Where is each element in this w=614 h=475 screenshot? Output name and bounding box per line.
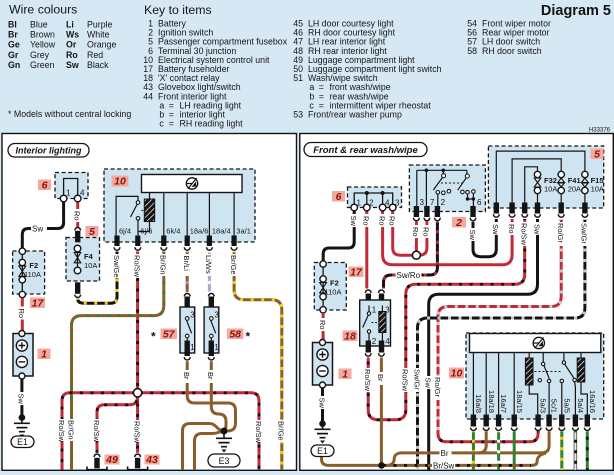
label 57 (pink) with asterisk [151,328,177,343]
svg-text:Sw/Gr: Sw/Gr [580,223,589,244]
svg-text:Br/Sw: Br/Sw [433,461,455,470]
internal wiring [473,353,514,415]
wire Br: switch 58 to earth E3 [211,361,226,431]
svg-text:49: 49 [105,454,118,466]
svg-text:1: 1 [342,368,348,380]
ignition switch 2 [409,165,485,212]
pins of fusebox 5 [493,203,587,218]
svg-text:2: 2 [455,217,462,229]
wire Ro: junction 6 to fusebox 5 [76,200,79,228]
svg-text:Ws: Ws [66,30,79,40]
svg-text:Br: Br [8,30,18,40]
svg-text:Sw: Sw [66,60,79,70]
fusebox 5 with fuse F4 10A [66,228,100,298]
svg-text:Key to items: Key to items [144,3,212,17]
svg-text:Br: Br [441,449,449,458]
wire Sw: ignition pin 6 to fusebox 5 [473,219,496,257]
svg-text:1: 1 [66,188,71,197]
svg-text:10: 10 [451,368,463,380]
junction node on Ro/Sw bus [136,397,139,453]
svg-text:6j/6: 6j/6 [140,227,152,236]
luggage compartment light 49 [87,454,107,470]
svg-text:H33376: H33376 [589,128,611,134]
header: key to items column 1 [143,3,287,129]
svg-text:Ro: Ro [507,224,516,234]
svg-text:Ro: Ro [66,50,78,60]
wire Ro/Sw bus right arm [142,393,259,470]
svg-text:Sw/Ge: Sw/Ge [112,255,121,278]
glovebox light 43 [128,454,148,470]
svg-text:Ro: Ro [411,227,420,237]
battery 1 [13,331,33,380]
svg-text:Ro/Sw: Ro/Sw [132,255,141,278]
svg-text:Br: Br [206,372,215,380]
label Ro/Sw [521,222,529,246]
panel title: Front & rear wash/wipe [304,143,427,157]
svg-text:2: 2 [372,337,377,346]
svg-text:Ro/Sw: Ro/Sw [92,420,101,443]
svg-text:Ro: Ro [377,216,386,226]
svg-text:* Models without central locki: * Models without central locking [8,109,131,119]
svg-text:Ro/Sw: Ro/Sw [132,421,141,444]
svg-text:6: 6 [42,179,48,191]
wire Br: relay 18 pin 4 to earth bus [380,358,383,466]
terminal 30 junction 6 [55,173,88,202]
svg-text:Sw: Sw [17,394,26,405]
svg-text:17: 17 [32,297,45,309]
svg-text:10A: 10A [591,185,604,194]
svg-text:Sw: Sw [424,378,433,389]
wire Ro/Sw: relay 18 pin 2 to fusebox 5 [368,219,525,420]
svg-text:6: 6 [477,198,482,207]
wire Sw/Gr: fuse F15 output down-left to bottom [418,219,585,470]
battery 1 (right) [313,340,333,389]
label 5 (pink) [86,226,99,238]
junction dot on earth bus [378,462,385,469]
wire Gn/Ge: pin 5a/5 to bottom [560,431,563,470]
svg-text:10: 10 [114,176,126,188]
svg-text:Ro: Ro [17,309,26,319]
svg-text:2: 2 [441,198,446,207]
label Ro/Gr [557,222,565,246]
wire Br/Sw: earth bus from right [382,453,547,465]
right panel frame [300,134,614,471]
svg-text:5: 5 [89,226,95,238]
svg-text:Brown: Brown [30,30,55,40]
svg-text:Br/Ge: Br/Ge [229,255,238,275]
svg-text:Ro/Gr: Ro/Gr [433,377,442,398]
svg-text:58: 58 [229,328,241,340]
svg-text:Interior lighting: Interior lighting [16,146,82,156]
wire Ro/Sw: junction to luggage light 49 [97,396,138,453]
svg-text:Sw: Sw [317,398,326,409]
svg-text:Red: Red [87,50,103,60]
wire Gn/Ws: pin 16a/7 to bottom [497,431,500,470]
internal pin feeds [164,193,234,236]
svg-text:Sw: Sw [349,216,358,227]
label 49 (pink) [105,454,120,466]
svg-text:Br/Gn: Br/Gn [66,420,75,440]
svg-text:10A: 10A [544,185,557,194]
svg-text:1: 1 [190,343,195,352]
left panel frame [2,134,297,471]
svg-text:Li/Ws: Li/Ws [204,255,213,274]
svg-text:Ro/Sw: Ro/Sw [363,369,372,392]
svg-text:Br/Ge: Br/Ge [277,421,286,441]
svg-text:20A: 20A [568,185,581,194]
wire Br/Ge: pin 3a/1 down, right and to bottom [234,252,282,471]
wire Br: pin 5c/1 to earth bus and junction [382,431,550,465]
wire Ro: junction 6 pin 3 to ignition switch pins 3 and 7 [393,209,427,255]
svg-text:Yellow: Yellow [30,40,56,50]
svg-text:Ro/Sw: Ro/Sw [520,223,529,246]
svg-text:43: 43 [145,454,158,466]
label Sw [492,222,500,235]
svg-text:5a/5: 5a/5 [562,398,571,413]
label Sw [534,222,542,235]
svg-text:RH door switch: RH door switch [482,46,542,56]
svg-text:Front/rear washer pump: Front/rear washer pump [308,110,402,120]
label Sw/Gr [581,222,589,246]
svg-text:Ge: Ge [8,40,20,50]
svg-text:Br: Br [182,372,191,380]
svg-text:1: 1 [41,348,47,360]
wire Br: switch 57 to earth E3 [187,361,235,431]
battery fuseholder 17 (right) with fuse F2 110A [314,261,346,313]
wire Ws: pin 5a/4 to bottom [574,431,577,470]
pins of wiper control unit 10 [471,415,591,431]
label 6 (pink) [332,191,345,203]
svg-text:51: 51 [293,73,303,83]
pins of control unit 10 [114,236,237,251]
svg-text:RH reading light: RH reading light [180,119,244,129]
wire Ro/Gr: fuse F41 output down-left then to wiper unit pin 5a/3 [438,219,561,434]
wire Sw: fuse F32 output down-left to bottom [429,219,538,470]
svg-text:F4: F4 [84,252,94,261]
svg-text:Sw/Gr: Sw/Gr [412,369,421,390]
wire Li/Ws: pin 18a/4 down to door switch 58 [208,252,211,293]
wire Sw/Ge: fuse F4 to pin 6j/4 [78,252,117,304]
svg-text:6k/4: 6k/4 [166,227,180,236]
ground E1 (right) [311,420,334,456]
label Ro [508,222,516,235]
door switch 57 [180,294,195,361]
svg-text:Wire colours: Wire colours [9,3,77,17]
svg-text:Ro: Ro [73,211,82,221]
svg-text:5: 5 [594,148,600,160]
wire Br/Li: pin 18a/6 down to door switch 57 [186,252,189,293]
panel title: Interior lighting [8,144,89,158]
wire Ro: junction 6 pin 2 down to relay 18 [365,209,368,289]
svg-text:1: 1 [372,306,377,315]
wire Br: earth bus branch to bottom right [195,431,225,470]
svg-text:53: 53 [293,110,303,120]
svg-text:17: 17 [350,266,363,278]
svg-text:5a/4: 5a/4 [576,398,585,413]
svg-text:F2: F2 [330,279,339,288]
battery fuseholder 17 with fuse F2 110A [13,248,45,298]
svg-text:16a/8: 16a/8 [474,394,483,413]
svg-text:18a/4: 18a/4 [212,227,231,236]
svg-text:=: = [169,119,174,129]
svg-text:Sw: Sw [32,224,43,233]
ground E3 [208,428,240,468]
svg-text:E3: E3 [219,456,230,466]
label 10 (pink) [449,368,464,380]
internal relay wiring [116,196,138,235]
header: key to items column 2 [293,19,441,120]
wire Ro: fuse F2 to battery (right) [322,313,325,340]
svg-text:Br: Br [376,374,385,382]
wire Sw: battery to ground [20,379,23,415]
svg-text:Purple: Purple [87,20,113,30]
svg-text:18: 18 [344,330,356,342]
passenger compartment fusebox 5 [488,146,604,208]
wire Sw: battery to ground (right) [321,388,324,421]
fuse F15 [582,171,604,202]
fuse F32 [534,171,557,202]
label 18 (pink) [343,330,358,342]
svg-text:16a/16: 16a/16 [588,390,597,413]
wire Ro: junction 6 pin 4 to fusebox 5 [383,209,512,265]
wire Br: earth bus branch to bottom left [183,424,225,471]
wire Sw: junction 6 pin 1 to battery fuseholder [323,209,354,261]
svg-text:Ro: Ro [318,320,327,330]
terminal 30 junction 6 (right) [348,187,402,211]
wire Ro: fuse F2 to battery [21,298,24,331]
svg-text:Blue: Blue [30,20,48,30]
junction circle [412,251,420,259]
svg-text:3: 3 [190,311,195,320]
svg-text:F2: F2 [29,261,38,270]
electrical system control unit 10 [104,169,255,242]
svg-text:Green: Green [30,60,55,70]
svg-text:18a/18: 18a/18 [487,390,496,413]
svg-text:Ro/Sw: Ro/Sw [254,421,263,444]
svg-text:Ro: Ro [362,216,371,226]
label 17 (pink) [349,266,364,278]
label 17 (pink) [30,297,45,309]
svg-text:6: 6 [336,191,342,203]
wiper control unit 10 (right) [466,333,604,419]
door switch 58 [204,294,219,361]
label 10 (pink) [112,176,129,188]
svg-text:3: 3 [420,198,425,207]
wire Gn/Ge: pin 16a/8 to bottom [472,431,475,470]
label 2 (pink) [452,217,466,229]
junction circle [133,389,141,397]
svg-text:Orange: Orange [87,40,116,50]
wire Sw/Ro: ignition pin 2 to relay 18 pin 3 [384,222,438,289]
svg-text:White: White [87,30,110,40]
svg-text:*: * [151,330,156,344]
label 43 (pink) [145,454,160,466]
svg-text:Sw/Ro: Sw/Ro [397,271,421,280]
label 6 (pink) [38,179,51,191]
svg-text:6j/4: 6j/4 [119,227,131,236]
svg-text:5c/1: 5c/1 [550,399,559,413]
svg-text:Li: Li [66,20,74,30]
svg-text:16a/7: 16a/7 [499,394,508,413]
wire Gn: pin 18a/15 to bottom [513,431,516,470]
'X' contact relay 18 [360,290,391,356]
svg-text:Gr: Gr [8,50,19,60]
svg-text:18a/15: 18a/15 [515,390,524,413]
svg-text:Ro/Sw: Ro/Sw [57,420,66,443]
svg-text:*: * [246,330,251,344]
svg-text:Ro/Gr: Ro/Gr [556,223,565,244]
label 1 (pink) [38,348,51,360]
svg-text:Bl: Bl [8,20,17,30]
wire Br/Gn: pin 6k/4 down, left and to bottom [72,252,164,471]
svg-text:Black: Black [87,60,109,70]
svg-text:Ro/Sw: Ro/Sw [401,369,410,392]
svg-text:3a/1: 3a/1 [236,227,251,236]
svg-text:1: 1 [214,343,219,352]
svg-text:Sw: Sw [532,224,541,235]
svg-text:c: c [159,119,164,129]
svg-text:110A: 110A [325,288,342,297]
pins of ignition switch 2 [414,206,476,221]
wire Br: pin 18a/18 to earth bus [479,431,487,453]
svg-text:Ro: Ro [422,227,431,237]
svg-text:Sw: Sw [468,230,477,241]
svg-text:Or: Or [66,40,77,50]
ground E1 [11,414,34,447]
svg-text:3: 3 [214,311,219,320]
wire Ro/Sw bus left arm [62,393,133,470]
interior light icon [186,178,197,189]
svg-text:Front & rear wash/wipe: Front & rear wash/wipe [313,145,418,156]
wire Ro: ignition pin 3 to junction [415,222,418,252]
svg-text:5a/3: 5a/3 [538,398,547,413]
wire Gn/Sw: pin 16a/16 to bottom [586,431,589,470]
svg-text:110A: 110A [24,270,41,279]
svg-text:10A: 10A [84,261,97,270]
label 5 (pink) [591,148,604,160]
svg-text:18a/6: 18a/6 [190,227,209,236]
svg-text:57: 57 [163,328,176,340]
wire Ro/Sw: pin 6j/6 down to junction [136,252,139,389]
svg-text:7: 7 [430,198,435,207]
header: key to items column 3 [467,19,551,56]
svg-text:Br/Gn: Br/Gn [159,255,168,275]
svg-text:Br/Li: Br/Li [182,256,191,272]
header: wire colours legend [8,3,131,120]
svg-text:58: 58 [467,46,477,56]
wire Br: earth bus to earth point E1 [322,457,382,465]
wire Ro/Sw: lower run to wiper unit pin 5a/3 [438,431,538,442]
svg-text:E1: E1 [317,446,328,456]
svg-text:4: 4 [385,337,390,346]
label 58 (pink) with asterisk [227,328,251,343]
svg-text:Sw: Sw [491,224,500,235]
label 1 (pink) [339,368,352,380]
svg-text:Gn: Gn [8,60,20,70]
svg-text:E1: E1 [17,437,28,447]
wiper icon [533,337,544,348]
svg-text:44: 44 [143,91,153,101]
svg-text:Grey: Grey [30,50,50,60]
fuse F41 [558,171,581,202]
wire Sw: terminal 30 junction to battery fuseholder [22,200,63,248]
svg-text:Ro: Ro [388,216,397,226]
svg-text:Diagram 5: Diagram 5 [541,3,611,19]
